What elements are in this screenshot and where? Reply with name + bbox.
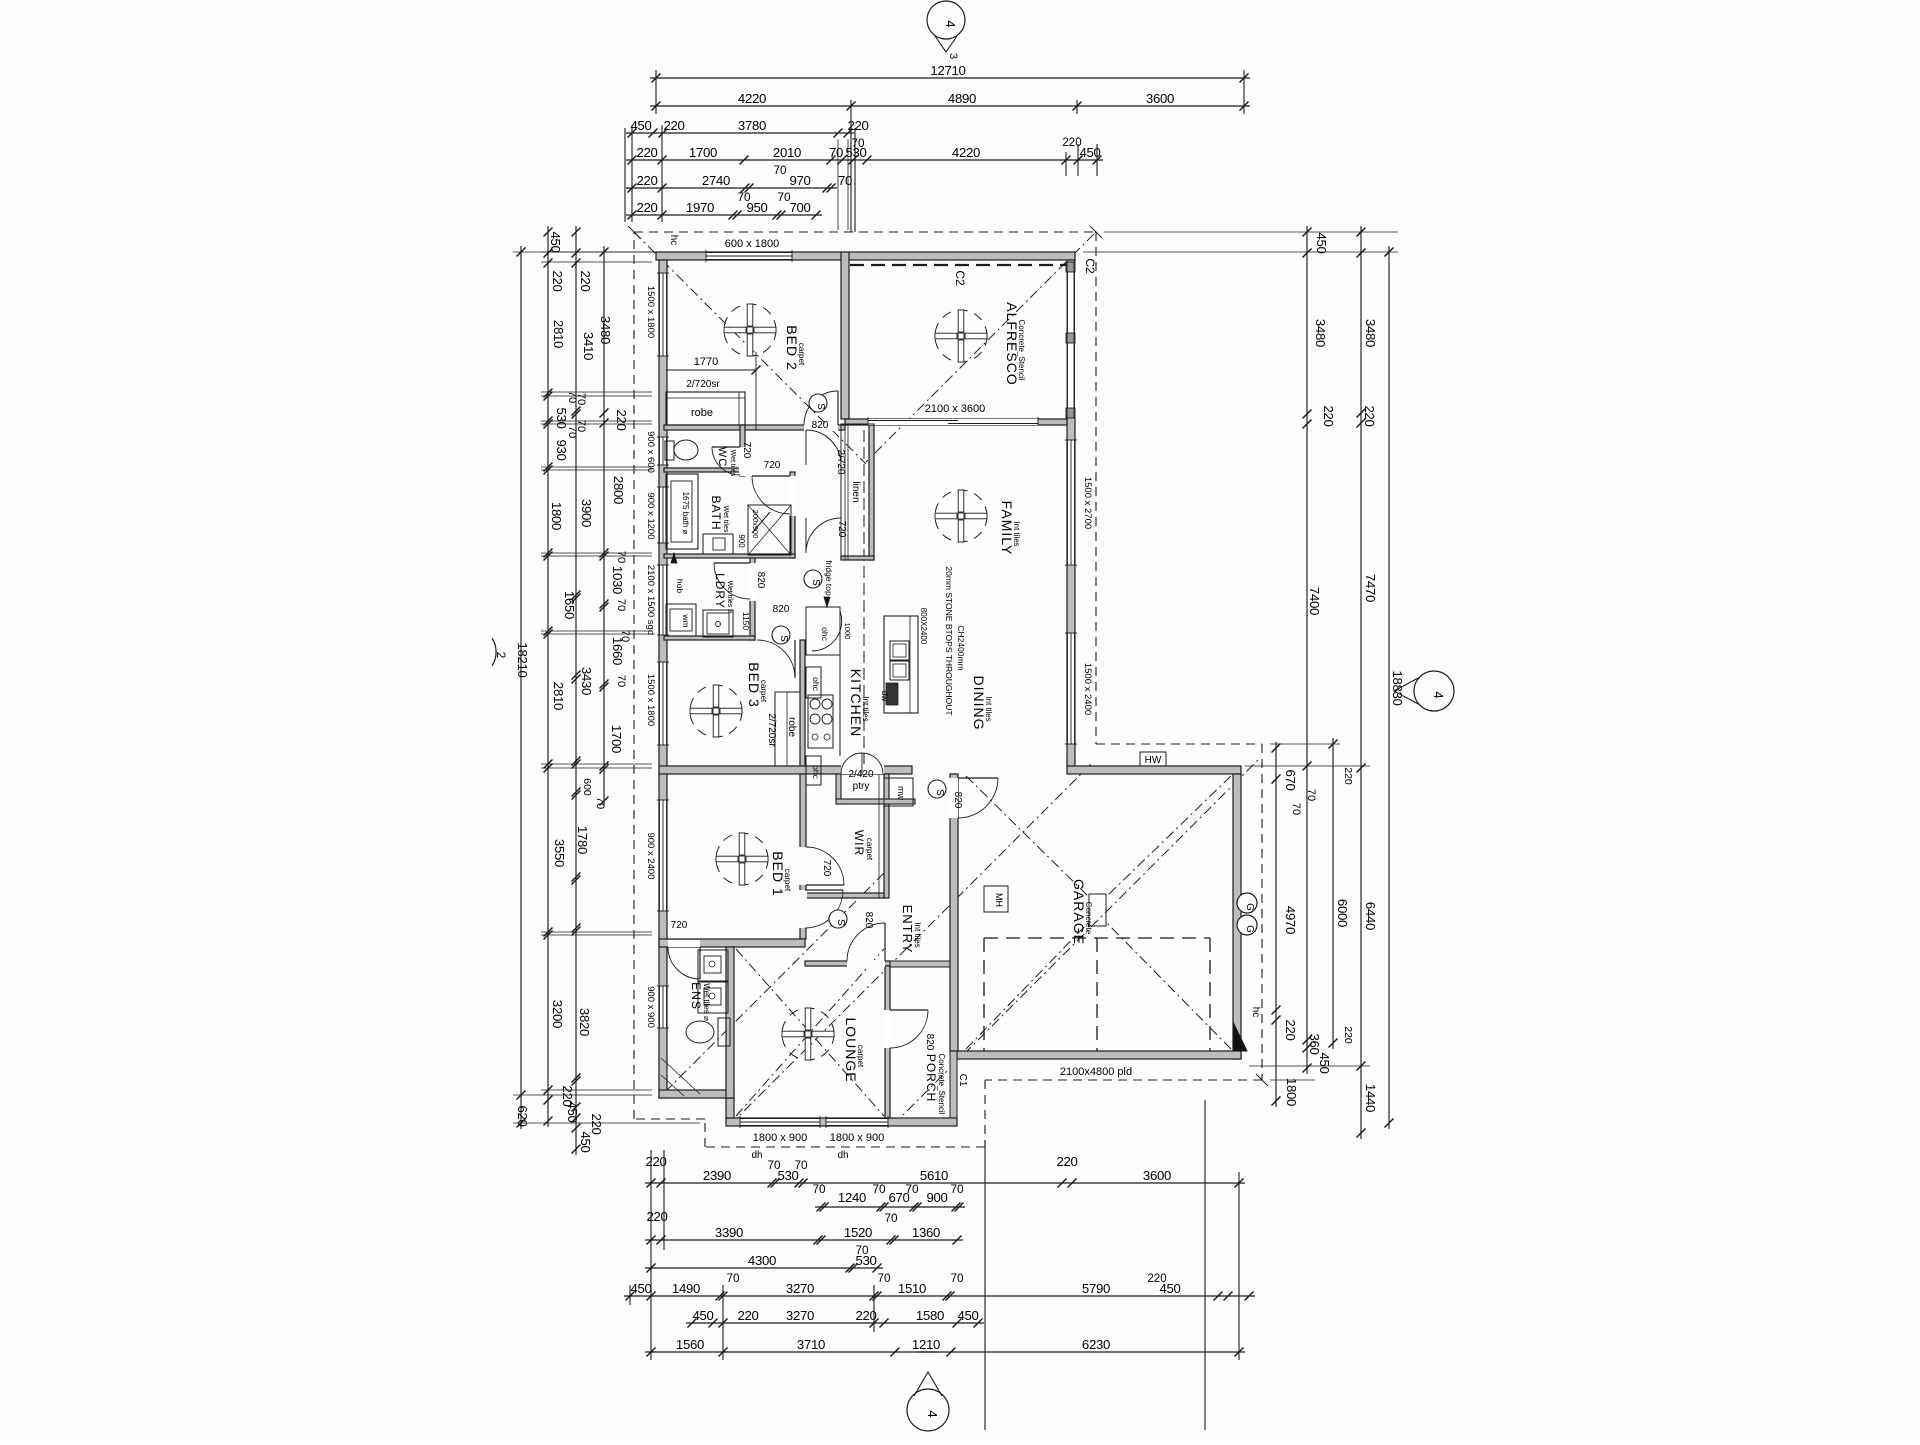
svg-text:1800 x 900: 1800 x 900	[830, 1132, 884, 1144]
roof hip line lower-left 1	[665, 867, 890, 1092]
svg-text:1030: 1030	[610, 566, 625, 594]
svg-text:carpet: carpet	[797, 343, 806, 366]
dim 4220-4890-3600	[650, 105, 1250, 107]
svg-text:220: 220	[614, 409, 629, 430]
linen doors	[805, 430, 807, 465]
svg-text:1970: 1970	[686, 200, 714, 215]
svg-text:450: 450	[957, 1308, 978, 1323]
svg-text:PORCH: PORCH	[924, 1054, 938, 1102]
svg-text:70: 70	[794, 1158, 808, 1172]
svg-text:450: 450	[578, 1131, 593, 1152]
roof valley porch-garage	[893, 758, 1260, 1125]
svg-text:1440: 1440	[1363, 1084, 1378, 1112]
svg-text:1210: 1210	[912, 1337, 940, 1352]
svg-text:70: 70	[767, 1158, 781, 1172]
svg-text:G: G	[1244, 925, 1255, 933]
svg-text:ohc: ohc	[820, 627, 830, 641]
wall lounge right wall	[885, 966, 890, 1118]
svg-text:70: 70	[1290, 803, 1302, 815]
wall bath/ldry divider	[664, 554, 795, 558]
svg-text:900: 900	[926, 1190, 947, 1205]
wall ens bottom exterior	[659, 1090, 734, 1098]
wall bed1 right wall	[800, 774, 806, 939]
svg-text:700: 700	[789, 200, 810, 215]
svg-text:450: 450	[548, 231, 563, 252]
roof ridge dashed kitchen/family boundary	[863, 430, 865, 764]
dim 18210	[520, 246, 522, 1129]
kitchen island	[884, 616, 918, 713]
svg-text:MH: MH	[994, 893, 1004, 907]
svg-text:450: 450	[630, 118, 651, 133]
svg-text:1240: 1240	[838, 1190, 866, 1205]
wall left exterior	[659, 260, 667, 1098]
smoke detector	[804, 570, 822, 588]
fridge cab	[806, 607, 840, 655]
svg-text:1000: 1000	[843, 623, 852, 640]
wall garage top exterior	[1067, 766, 1241, 774]
svg-text:Concrete: Concrete	[1084, 902, 1093, 935]
svg-text:7470: 7470	[1363, 574, 1378, 602]
svg-text:S: S	[778, 635, 789, 642]
svg-text:220: 220	[1147, 1273, 1166, 1285]
roof hip garage br	[1106, 922, 1231, 1049]
svg-text:3600: 3600	[1146, 91, 1174, 106]
svg-text:4890: 4890	[948, 91, 976, 106]
svg-text:1800: 1800	[1284, 1078, 1299, 1106]
svg-text:220: 220	[1283, 1019, 1298, 1040]
svg-text:hob: hob	[675, 579, 685, 593]
bottom extension lines	[650, 1150, 652, 1360]
wall porch right wall	[950, 966, 957, 1126]
svg-text:Wet tiles ⌀: Wet tiles ⌀	[702, 983, 711, 1021]
island sink	[890, 641, 909, 660]
svg-text:3820: 3820	[577, 1008, 592, 1036]
alfresco right open wall	[1066, 262, 1068, 418]
dim row5	[626, 187, 837, 189]
svg-text:70: 70	[615, 551, 627, 563]
wall ens/lounge divider	[726, 947, 734, 1098]
svg-text:linen: linen	[850, 481, 861, 502]
wall bed2/alfresco divider wall	[841, 252, 849, 419]
robe bed3	[775, 692, 800, 766]
wall wir right wall	[884, 774, 889, 898]
svg-text:220: 220	[550, 270, 565, 291]
smoke detector	[928, 780, 946, 798]
svg-text:900 x 600: 900 x 600	[645, 431, 656, 473]
svg-text:70: 70	[737, 190, 751, 204]
ceiling fan alfresco	[935, 310, 987, 362]
wall entry/lounge wall	[805, 961, 890, 966]
front door opening	[884, 1010, 891, 1048]
svg-text:mw: mw	[896, 786, 906, 800]
wall wc right wall	[740, 425, 745, 476]
left block extension lines	[541, 251, 652, 253]
row B5	[624, 1295, 1255, 1297]
svg-text:fridge top: fridge top	[824, 560, 834, 596]
ceiling fan lounge	[782, 1008, 834, 1060]
svg-text:720: 720	[741, 442, 752, 459]
svg-text:720: 720	[836, 521, 847, 538]
svg-text:70: 70	[726, 1271, 740, 1285]
svg-text:S: S	[810, 579, 821, 586]
svg-text:70: 70	[619, 630, 631, 642]
svg-text:1520: 1520	[844, 1225, 872, 1240]
alfresco bottom wall	[845, 419, 1067, 425]
wall bed1/wir top wall	[659, 766, 912, 774]
ens toilet	[718, 1018, 730, 1046]
svg-text:3900: 3900	[579, 499, 594, 527]
svg-text:12710: 12710	[930, 63, 965, 78]
svg-text:1500 x 2700: 1500 x 2700	[1082, 477, 1093, 529]
window dining 1500x2400	[1067, 633, 1075, 744]
svg-text:ohc: ohc	[811, 765, 821, 779]
svg-text:220: 220	[1062, 137, 1081, 149]
svg-text:S: S	[815, 403, 826, 410]
svg-text:70: 70	[615, 599, 627, 611]
bed2 1770 dim	[666, 369, 756, 371]
svg-text:220: 220	[636, 173, 657, 188]
svg-text:3600: 3600	[1143, 1168, 1171, 1183]
pantry double doors	[841, 765, 884, 774]
svg-text:5790: 5790	[1082, 1281, 1110, 1296]
door bath opening	[789, 476, 796, 516]
svg-text:2810: 2810	[551, 682, 566, 710]
svg-text:70: 70	[575, 393, 587, 405]
ceiling fan bed1	[716, 833, 768, 885]
roof hip garage tr	[1106, 776, 1231, 897]
svg-text:1150: 1150	[741, 612, 751, 631]
svg-text:S: S	[934, 789, 945, 796]
chain R2b	[1332, 738, 1334, 1049]
row B3	[645, 1239, 963, 1241]
window bed2 600x1800 top	[706, 252, 792, 260]
svg-text:2100 x 1500 sgd: 2100 x 1500 sgd	[645, 565, 656, 635]
svg-text:3270: 3270	[786, 1281, 814, 1296]
svg-text:carpet: carpet	[865, 838, 874, 861]
svg-text:ENS: ENS	[689, 982, 703, 1010]
section marker top (4/3)	[927, 1, 965, 39]
row B2	[815, 1206, 965, 1208]
dim row3	[626, 132, 854, 134]
svg-text:820: 820	[924, 1034, 935, 1051]
window wc 900x600	[659, 437, 667, 465]
svg-text:1500 x 1800: 1500 x 1800	[645, 286, 656, 338]
wall bath right wall	[790, 472, 795, 558]
robe bed2	[666, 392, 745, 425]
roof hip line from top-left corner	[634, 232, 866, 464]
wall top exterior (BED2/ALFRESCO)	[656, 252, 1075, 260]
svg-text:70: 70	[838, 173, 852, 188]
svg-text:820: 820	[952, 792, 963, 809]
ceiling fan family	[935, 490, 987, 542]
svg-text:2/420: 2/420	[848, 769, 873, 780]
svg-text:carpet: carpet	[783, 869, 792, 892]
svg-text:20mm STONE BTOPS THROUGHOUT: 20mm STONE BTOPS THROUGHOUT	[944, 566, 954, 715]
svg-text:600: 600	[581, 778, 593, 796]
svg-text:5610: 5610	[920, 1168, 948, 1183]
svg-text:450: 450	[1314, 232, 1329, 253]
svg-text:820: 820	[863, 912, 874, 929]
door bed3 opening	[757, 639, 795, 646]
wall wir bottom wall	[806, 893, 884, 898]
wall garage right exterior	[1233, 774, 1241, 1059]
svg-text:1800: 1800	[549, 502, 564, 530]
door entry-lounge opening	[847, 960, 885, 967]
svg-text:1780: 1780	[575, 826, 590, 854]
svg-text:3480: 3480	[598, 316, 613, 344]
svg-text:220: 220	[1056, 1154, 1077, 1169]
svg-text:2100x4800 pld: 2100x4800 pld	[1060, 1066, 1132, 1078]
ceiling fan bed2	[724, 304, 776, 356]
svg-text:1560: 1560	[676, 1337, 704, 1352]
wall wc/bath divider	[664, 468, 740, 472]
wall garage bottom exterior	[957, 1051, 1241, 1059]
svg-text:G: G	[1244, 903, 1255, 911]
svg-text:70: 70	[777, 190, 791, 204]
svg-text:820: 820	[755, 572, 766, 589]
svg-text:3270: 3270	[786, 1308, 814, 1323]
svg-text:2/720: 2/720	[835, 449, 846, 474]
right block extension lines	[1104, 231, 1398, 233]
smoke detector	[772, 626, 790, 644]
chain D	[603, 246, 605, 807]
wall lounge/porch bottom exterior	[726, 1118, 957, 1126]
svg-text:LDRY: LDRY	[713, 573, 727, 609]
svg-text:2800: 2800	[611, 476, 626, 504]
svg-text:900 x 900: 900 x 900	[645, 986, 656, 1028]
kitchen ohc3	[806, 756, 821, 785]
svg-text:220: 220	[1342, 767, 1354, 785]
svg-text:220: 220	[855, 1308, 876, 1323]
svg-text:1500 x 1800: 1500 x 1800	[645, 674, 656, 726]
island hotplate dark	[886, 683, 898, 705]
svg-text:dh: dh	[837, 1150, 848, 1161]
eave corner diagonal top-left	[628, 226, 640, 238]
svg-text:1770: 1770	[694, 356, 718, 368]
roof hip garage bl	[966, 922, 1089, 1049]
MH box	[984, 886, 1008, 912]
svg-text:1580: 1580	[916, 1308, 944, 1323]
wall garage left wall	[950, 774, 958, 1051]
svg-text:C2: C2	[953, 270, 967, 286]
svg-text:1700: 1700	[689, 145, 717, 160]
kitchen bench front	[839, 607, 841, 756]
linen shelves	[841, 424, 874, 560]
row B7	[645, 1351, 1245, 1353]
svg-text:CH2400mm: CH2400mm	[956, 625, 966, 670]
svg-text:220: 220	[737, 1308, 758, 1323]
row B1	[645, 1182, 1245, 1184]
svg-text:720: 720	[764, 460, 781, 471]
wall bed3 right wall	[800, 640, 805, 766]
svg-text:220: 220	[1362, 405, 1377, 426]
hc triangle downpipe	[1233, 1022, 1247, 1051]
svg-text:18830: 18830	[1390, 670, 1405, 705]
svg-text:3200: 3200	[550, 1000, 565, 1028]
wall lounge left lower exterior	[726, 1098, 734, 1118]
svg-text:720: 720	[821, 860, 832, 877]
window bed1 900x2400	[659, 800, 667, 911]
svg-text:220: 220	[645, 1154, 666, 1169]
bath vanity	[703, 534, 733, 554]
lounge ceiling cross 1	[736, 949, 884, 1116]
mw box	[884, 778, 913, 806]
section marker right (4)	[1414, 671, 1454, 711]
smoke detector	[809, 394, 827, 412]
window bed2 1500x1800	[659, 273, 667, 356]
svg-text:2740: 2740	[702, 173, 730, 188]
chain R3	[1360, 226, 1362, 1139]
svg-text:Int tiles: Int tiles	[984, 696, 993, 721]
svg-text:robe: robe	[786, 717, 797, 737]
svg-text:6000: 6000	[1335, 899, 1350, 927]
svg-text:ptry: ptry	[853, 781, 870, 792]
dim row4	[626, 159, 1103, 161]
wall porch top wall	[890, 961, 957, 967]
svg-text:Concrete_Stencil: Concrete_Stencil	[937, 1054, 946, 1115]
window lounge 1800x900 b	[826, 1118, 888, 1126]
eave corner diagonal top-right	[1090, 226, 1102, 238]
svg-text:4220: 4220	[738, 91, 766, 106]
svg-text:3390: 3390	[715, 1225, 743, 1240]
wall bed2 bottom wall	[664, 425, 845, 430]
smoke detector	[829, 910, 847, 928]
garage apex box	[1089, 894, 1106, 926]
door ldry opening	[749, 563, 756, 601]
svg-text:carpet: carpet	[856, 1045, 865, 1068]
svg-text:1490: 1490	[672, 1281, 700, 1296]
svg-text:450: 450	[630, 1281, 651, 1296]
svg-text:2100 x 3600: 2100 x 3600	[925, 403, 986, 415]
wall ldry/bed3 divider	[664, 636, 755, 640]
svg-text:HW: HW	[1145, 755, 1162, 766]
svg-text:220: 220	[578, 270, 593, 291]
svg-text:70: 70	[773, 163, 787, 177]
svg-text:1510: 1510	[898, 1281, 926, 1296]
svg-text:7400: 7400	[1307, 587, 1322, 615]
section marker left (2)	[492, 638, 496, 666]
svg-text:1700: 1700	[609, 725, 624, 753]
svg-text:6440: 6440	[1363, 902, 1378, 930]
chain R1	[1275, 742, 1277, 1107]
svg-text:18210: 18210	[515, 642, 530, 677]
shower bath	[748, 505, 791, 555]
svg-text:wm: wm	[681, 613, 691, 627]
svg-text:220: 220	[1321, 405, 1336, 426]
wall ldry right wall	[750, 558, 755, 640]
svg-text:Wet tiles: Wet tiles	[722, 506, 729, 533]
svg-text:hc: hc	[668, 235, 679, 246]
svg-text:ENTRY: ENTRY	[900, 905, 915, 954]
svg-text:70: 70	[615, 675, 627, 687]
svg-text:3550: 3550	[552, 839, 567, 867]
svg-text:4: 4	[925, 1410, 940, 1417]
wir shelf	[878, 774, 880, 898]
svg-text:70: 70	[855, 1243, 869, 1257]
lounge ceiling cross 2	[736, 949, 884, 1116]
row B4	[645, 1267, 883, 1269]
alfresco C2 lintel dashes	[850, 264, 1066, 266]
ens shower diagonals	[661, 1058, 700, 1094]
wall bed1 bottom / ens top wall	[659, 939, 805, 947]
GG meter circles	[1237, 893, 1257, 913]
svg-text:930: 930	[554, 439, 569, 460]
svg-text:Int tiles: Int tiles	[913, 922, 922, 947]
svg-text:4: 4	[1431, 691, 1446, 698]
svg-text:530: 530	[845, 145, 866, 160]
bath tub	[666, 474, 698, 549]
svg-text:1500 x 2400: 1500 x 2400	[1082, 663, 1093, 715]
pantry walls	[836, 774, 841, 804]
svg-text:900 x 1200: 900 x 1200	[645, 492, 656, 539]
svg-text:Int tiles: Int tiles	[861, 696, 870, 721]
ens vanity	[698, 950, 728, 981]
row B6	[686, 1322, 984, 1324]
wall linen right wall	[869, 424, 874, 560]
svg-text:900 x 2400: 900 x 2400	[645, 832, 656, 879]
dim 18830	[1388, 246, 1390, 1129]
ldry wm	[666, 604, 696, 636]
dim row6	[626, 214, 822, 216]
svg-text:820: 820	[812, 420, 829, 431]
section marker bottom (4)	[907, 1389, 949, 1431]
kitchen cooktop	[808, 695, 833, 748]
wall right exterior (alfresco/family/dining)	[1067, 260, 1075, 766]
ldry trough	[703, 610, 733, 637]
svg-text:70: 70	[829, 145, 843, 160]
svg-text:3430: 3430	[579, 667, 594, 695]
HW box	[1140, 752, 1166, 766]
svg-text:70: 70	[950, 1271, 964, 1285]
alfresco right open posts	[1066, 262, 1076, 418]
svg-text:800X2400: 800X2400	[919, 608, 928, 645]
svg-text:1800 x 900: 1800 x 900	[753, 1132, 807, 1144]
svg-text:C2: C2	[1083, 258, 1097, 274]
svg-text:dh: dh	[751, 1150, 762, 1161]
svg-text:70: 70	[812, 1182, 826, 1196]
svg-text:1650: 1650	[562, 591, 577, 619]
svg-text:3780: 3780	[738, 118, 766, 133]
svg-text:70: 70	[877, 1271, 891, 1285]
svg-text:WIR: WIR	[852, 830, 866, 856]
svg-text:3480: 3480	[1313, 319, 1328, 347]
svg-text:70: 70	[884, 1211, 898, 1225]
svg-text:450: 450	[692, 1308, 713, 1323]
door bed2 opening	[804, 424, 838, 431]
eave corner diagonal bottom-right	[1256, 1074, 1268, 1086]
svg-text:C1: C1	[957, 1074, 968, 1087]
svg-text:600 x 1800: 600 x 1800	[725, 238, 779, 250]
svg-text:robe: robe	[691, 407, 713, 419]
svg-text:Wet tiles ⌀: Wet tiles ⌀	[726, 581, 733, 614]
wall linen bottom wall	[841, 556, 874, 560]
window bed3 1500x1800	[659, 662, 667, 745]
svg-text:BATH: BATH	[709, 495, 723, 530]
svg-text:70: 70	[575, 420, 587, 432]
svg-text:70: 70	[872, 1182, 886, 1196]
garage door dashed recess	[984, 937, 1210, 939]
svg-text:220: 220	[1342, 1026, 1354, 1044]
svg-text:220: 220	[663, 118, 684, 133]
svg-text:70: 70	[905, 1182, 919, 1196]
door wir opening	[799, 847, 807, 885]
toilet wc	[665, 441, 674, 460]
svg-text:4970: 4970	[1283, 906, 1298, 934]
svg-text:WC: WC	[716, 447, 728, 467]
svg-text:ohc: ohc	[811, 677, 821, 691]
window family 1500x2700	[1067, 440, 1075, 565]
svg-text:Int tiles: Int tiles	[1012, 521, 1021, 546]
